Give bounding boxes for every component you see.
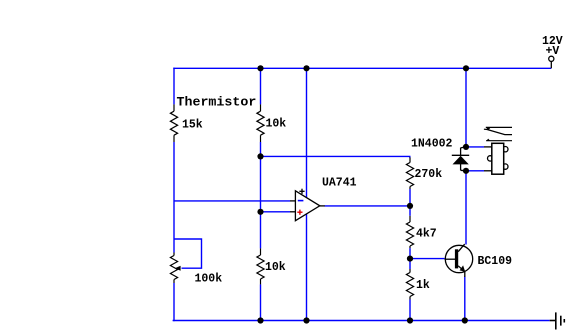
svg-text:1N4002: 1N4002: [411, 138, 453, 151]
svg-text:100k: 100k: [195, 273, 223, 286]
svg-text:10k: 10k: [265, 261, 286, 274]
svg-text:UA741: UA741: [322, 177, 357, 190]
svg-text:1k: 1k: [416, 279, 430, 292]
svg-text:15k: 15k: [182, 118, 203, 131]
svg-text:270k: 270k: [415, 168, 443, 181]
svg-text:4k7: 4k7: [416, 227, 437, 240]
svg-text:BC109: BC109: [478, 255, 513, 268]
svg-text:Thermistor: Thermistor: [177, 95, 257, 110]
svg-text:10k: 10k: [266, 117, 287, 130]
svg-text:+V: +V: [546, 45, 560, 58]
